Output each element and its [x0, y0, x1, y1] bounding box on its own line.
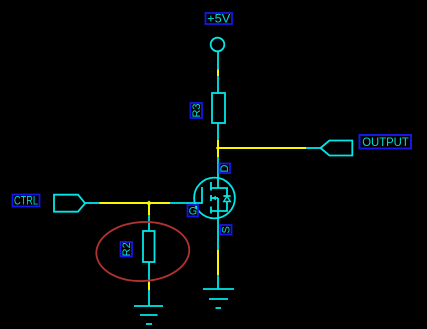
wire R2 to ground — [148, 282, 150, 290]
wire source to ground — [217, 250, 219, 275]
transistor Q1 source inner lead — [210, 198, 228, 218]
svg-text:R2: R2 — [121, 242, 133, 256]
label OUTPUT — [360, 135, 412, 149]
svg-text:S: S — [221, 226, 233, 233]
svg-text:CTRL: CTRL — [14, 194, 38, 208]
wire drain node to OUTPUT port — [218, 147, 306, 149]
svg-text:D: D — [219, 164, 231, 172]
power port VCC circle — [211, 38, 225, 70]
resistor R2 label — [121, 242, 134, 257]
label G — [188, 205, 199, 218]
transistor Q1 gate pin — [170, 202, 202, 204]
transistor Q1 drain pin — [217, 157, 219, 178]
resistor R3 label — [191, 103, 204, 118]
port OUTPUT symbol — [306, 141, 352, 156]
resistor R3 pin 2 — [217, 123, 219, 140]
resistor R3 body — [212, 93, 225, 123]
port CTRL symbol — [54, 195, 100, 212]
resistor R2 pin 1 — [148, 215, 150, 231]
junction drain node — [216, 146, 220, 150]
svg-text:+5V: +5V — [207, 11, 230, 25]
transistor Q1 gate bar — [201, 187, 203, 204]
svg-text:R3: R3 — [191, 103, 203, 117]
wire CTRL to gate — [100, 202, 171, 204]
resistor R2 body — [143, 231, 155, 262]
transistor Q1 body circle — [194, 178, 235, 219]
resistor R3 pin 1 — [217, 76, 219, 93]
resistor R2 pin 2 — [148, 262, 150, 282]
label S — [221, 225, 233, 235]
wire gate node to R2 — [148, 203, 150, 215]
wire R3 to drain node — [217, 140, 219, 157]
power port +5V label — [206, 11, 233, 25]
label D — [219, 164, 231, 174]
transistor Q1 body arrow — [211, 196, 218, 200]
svg-text:G: G — [189, 206, 198, 218]
port CTRL label — [13, 194, 40, 208]
transistor Q1 source pin — [217, 218, 219, 250]
annotation red ellipse around R2 — [95, 220, 191, 284]
transistor Q1 body diode — [223, 188, 230, 211]
ground symbol right — [203, 275, 234, 308]
svg-text:OUTPUT: OUTPUT — [362, 135, 409, 149]
ground symbol left — [134, 290, 163, 324]
junction gate node — [146, 201, 152, 206]
transistor Q1 channel segments — [210, 182, 212, 214]
transistor Q1 drain inner lead — [210, 178, 228, 188]
wire +5V to R3 — [217, 70, 219, 77]
